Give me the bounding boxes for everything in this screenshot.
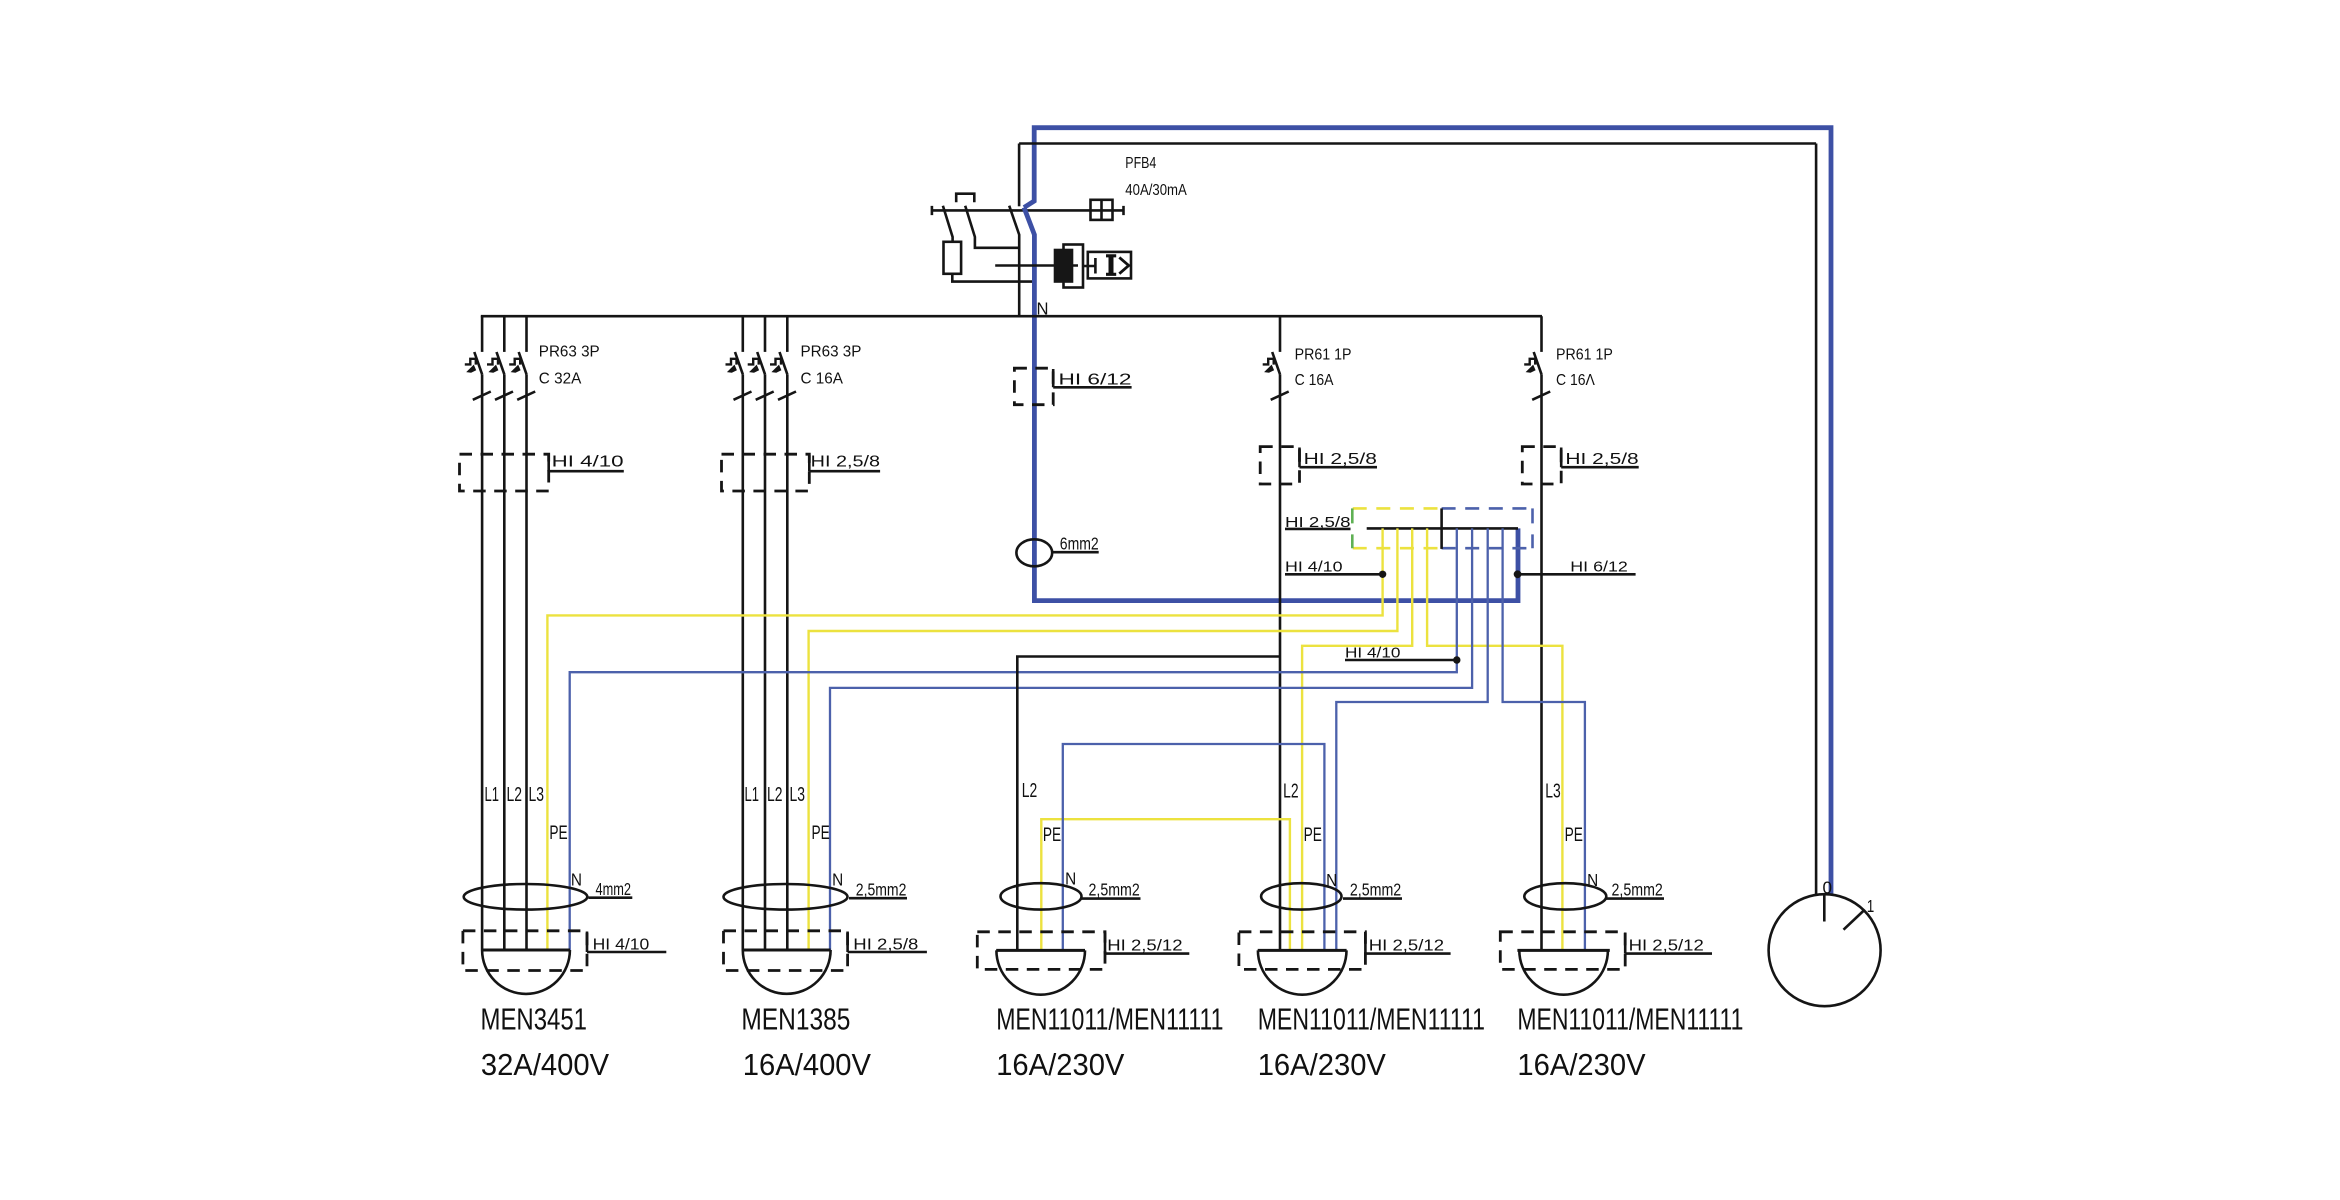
label HI 4/10 second leader to blue N wire [1345, 659, 1457, 662]
socket X1 dome [482, 950, 570, 994]
wire Q4 pole down to socket X5 [1540, 374, 1543, 950]
wire Q1 pole L1 down to socket X1 [481, 374, 484, 950]
socket X1 4mm2 label and underline [588, 896, 632, 899]
cable marker HI 6/12 tick and underline [1053, 369, 1131, 387]
wire N blue socket X5 drop from terminal block [1503, 528, 1585, 950]
junction dot on thick blue riser [1514, 570, 1522, 578]
svg-text:0: 0 [1823, 877, 1833, 897]
socket X2 2,5mm2 label and underline [849, 897, 907, 900]
cable marker HI 2,5/8 tick and underline [809, 455, 880, 471]
wire PE yellow group1: socket X1 up and to terminal block [547, 528, 1382, 950]
svg-text:6mm2: 6mm2 [1060, 533, 1099, 553]
breaker Q1 pole L3 [509, 316, 535, 400]
svg-text:C 16Λ: C 16Λ [1556, 372, 1595, 389]
socket X4 2,5mm2 label and underline [1343, 897, 1402, 900]
svg-text:PE: PE [1565, 824, 1583, 846]
wire Q2 pole L3 down to socket X2 [786, 374, 789, 950]
wire N blue group1: socket X1 up and to terminal block [570, 528, 1457, 950]
junction dot on blue N wire [1453, 656, 1460, 663]
svg-text:MEN11011/MEN11111: MEN11011/MEN11111 [1258, 1001, 1485, 1036]
cable marker dashed box HI 2,5/8 on Q3 [1260, 447, 1299, 484]
svg-text:HI 2,5/8: HI 2,5/8 [811, 454, 880, 471]
selector switch position 0 tick [1823, 894, 1826, 921]
svg-text:HI 4/10: HI 4/10 [1345, 645, 1401, 661]
svg-text:L1: L1 [485, 783, 500, 806]
wire phase distribution bus [481, 315, 1542, 318]
terminal block label HI 2,5/8 with underline [1285, 528, 1351, 531]
socket X3 cable ellipse [1001, 883, 1082, 909]
svg-text:PE: PE [812, 822, 830, 844]
socket X3 HI 2,5/12 tick underline label [1105, 933, 1189, 954]
cable marker dashed box HI 6/12 on neutral riser [1014, 368, 1053, 405]
cable marker dashed box HI 2,5/8 on Q4 [1522, 447, 1561, 484]
breaker Q1 PR63 3P C32A pole L1 [465, 316, 491, 400]
svg-text:MEN11011/MEN11111: MEN11011/MEN11111 [996, 1001, 1223, 1036]
svg-text:16A/230V: 16A/230V [1517, 1047, 1646, 1082]
svg-text:C 16A: C 16A [801, 370, 844, 387]
socket X2 dashed box [724, 931, 848, 971]
socket X3 2,5mm2 label and underline [1082, 897, 1141, 900]
wire blue top bus from RCD N pole to right riser [1024, 128, 1831, 895]
svg-text:PR61 1P: PR61 1P [1556, 346, 1613, 363]
svg-text:HI 2,5/12: HI 2,5/12 [1369, 937, 1444, 954]
svg-text:L3: L3 [529, 783, 545, 806]
svg-text:HI 2,5/8: HI 2,5/8 [1565, 451, 1638, 468]
RCD test button square [1091, 200, 1113, 220]
svg-text:N: N [832, 869, 843, 889]
wire PE yellow socket X5 drop from terminal block [1427, 528, 1562, 950]
svg-text:L2: L2 [1283, 780, 1299, 803]
socket X4 dome [1258, 950, 1347, 994]
cable marker HI 4/10 tick and underline [549, 455, 624, 471]
RCD pole 3 feed [1018, 144, 1021, 207]
wire Q1 pole L3 down to socket X1 [525, 374, 528, 950]
socket X1 cable ellipse [464, 884, 588, 910]
label HI 6/12 leader from thick blue riser [1517, 573, 1635, 576]
wire black right riser down to selector switch [1815, 144, 1818, 895]
svg-text:N: N [571, 869, 582, 889]
socket X3 plate [996, 949, 1085, 952]
wire PE yellow group2: socket X2 up and to terminal block [809, 528, 1398, 950]
terminal block N dashed box blue bottom edge [1442, 547, 1533, 550]
cable marker ellipse 6mm2 on neutral riser [1016, 539, 1052, 566]
socket X3 dashed box [977, 932, 1105, 970]
svg-text:HI 2,5/12: HI 2,5/12 [1629, 937, 1704, 954]
breaker Q2 pole L2 [748, 316, 774, 400]
wire Q1 pole L2 down to socket X1 [503, 374, 506, 950]
wire N blue link socket X4 to socket X3 [1063, 744, 1325, 950]
RCD trip relay I> box [1088, 252, 1131, 279]
svg-text:16A/400V: 16A/400V [743, 1047, 872, 1082]
svg-text:L2: L2 [1022, 779, 1037, 802]
terminal block N dashed box blue top edge [1442, 507, 1533, 510]
RCD neutral pole blue blade and riser down to neutral distribution [1024, 208, 1518, 601]
RCD supply terminal line [932, 206, 1124, 215]
wire black L2 branch from Q3 to socket X3 [1017, 657, 1280, 951]
RCD pole 3 blade and lower wire to N bus [1009, 206, 1019, 317]
svg-text:L3: L3 [1545, 780, 1561, 803]
svg-text:16A/230V: 16A/230V [1258, 1047, 1387, 1082]
cable marker HI 2,5/8 tick and underline on Q4 [1561, 448, 1639, 468]
wire Q2 pole L2 down to socket X2 [764, 374, 767, 950]
svg-text:L2: L2 [507, 783, 523, 806]
RCD CT core black rect [1054, 249, 1074, 283]
svg-text:PE: PE [549, 822, 567, 844]
socket X2 HI 2,5/8 tick underline label [848, 932, 927, 953]
socket X2 plate [743, 949, 831, 952]
wire Q3 pole down to socket X4 [1279, 374, 1282, 950]
socket X4 dashed box [1239, 932, 1366, 970]
wire Q2 pole L1 down to socket X2 [741, 374, 744, 950]
svg-text:2,5mm2: 2,5mm2 [1089, 880, 1140, 900]
svg-text:HI 2,5/8: HI 2,5/8 [853, 936, 918, 953]
svg-text:2,5mm2: 2,5mm2 [1612, 880, 1663, 900]
wire N blue socket X4 drop from terminal block [1336, 528, 1487, 950]
svg-text:HI 4/10: HI 4/10 [1285, 560, 1343, 576]
socket X5 dome [1519, 950, 1608, 994]
socket X1 HI 4/10 tick underline label [587, 932, 666, 953]
svg-text:2,5mm2: 2,5mm2 [856, 879, 907, 899]
svg-text:C 32A: C 32A [539, 370, 582, 387]
terminal block N dashed box blue right edge [1531, 508, 1534, 548]
socket X1 dashed box [463, 931, 587, 971]
breaker Q1 pole L2 [487, 316, 513, 400]
svg-text:L3: L3 [790, 783, 806, 806]
cable marker dashed box HI 2,5/8 on Q2 [722, 454, 810, 491]
socket X2 dome [743, 950, 831, 994]
terminal block PE dashed box yellow bottom edge [1353, 547, 1442, 550]
socket X5 HI 2,5/12 tick underline label [1625, 933, 1712, 954]
wire PE yellow socket X4 right drop from terminal block [1302, 528, 1412, 950]
breaker Q4 PR61 1P C16A pole [1524, 316, 1550, 400]
cable marker dashed box HI 4/10 on Q1 [460, 454, 549, 491]
svg-text:16A/230V: 16A/230V [996, 1047, 1125, 1082]
RCD pole 1 blade [943, 206, 953, 242]
junction dot on yellow PE wire [1379, 571, 1386, 578]
svg-text:HI 2,5/12: HI 2,5/12 [1107, 937, 1182, 954]
breaker Q2 PR63 3P C16A pole L1 [726, 316, 752, 400]
socket X3 dome [996, 950, 1085, 994]
svg-text:HI 6/12: HI 6/12 [1570, 560, 1628, 576]
terminal block PE dashed box green left edge [1351, 508, 1354, 548]
breaker Q3 PR61 1P C16A pole [1263, 316, 1289, 400]
RCD relay > glyph [1119, 257, 1128, 273]
svg-text:PR63 3P: PR63 3P [801, 344, 862, 361]
wire N blue group2: socket X2 up and to terminal block [830, 528, 1472, 950]
svg-text:PR63 3P: PR63 3P [539, 344, 600, 361]
svg-text:HI 2,5/8: HI 2,5/8 [1304, 451, 1377, 468]
RCD relay input tick [1083, 258, 1095, 274]
svg-text:2,5mm2: 2,5mm2 [1350, 880, 1401, 900]
svg-text:MEN3451: MEN3451 [481, 1001, 588, 1036]
svg-text:MEN11011/MEN11111: MEN11011/MEN11111 [1517, 1001, 1743, 1036]
terminal block PE dashed box yellow top edge [1353, 507, 1442, 510]
socket X4 plate [1258, 949, 1347, 952]
svg-text:PR61 1P: PR61 1P [1295, 346, 1352, 363]
selector switch position 1 tick [1844, 911, 1864, 930]
svg-text:L1: L1 [745, 783, 760, 806]
socket X5 plate [1517, 949, 1609, 952]
socket X4 cable ellipse [1261, 883, 1341, 909]
svg-text:4mm2: 4mm2 [596, 879, 632, 899]
RCD test linkage bracket [956, 194, 974, 203]
svg-text:PE: PE [1304, 824, 1322, 846]
RCD CT secondary outline box [1064, 245, 1084, 288]
svg-text:1: 1 [1867, 896, 1875, 916]
svg-text:MEN1385: MEN1385 [741, 1001, 850, 1036]
socket X1 plate [482, 949, 570, 952]
socket X5 2,5mm2 label and underline [1607, 897, 1665, 900]
wire PE yellow link socket X4 to socket X3 [1041, 819, 1290, 950]
RCD coil wire to N [952, 274, 1034, 282]
socket X2 cable ellipse [724, 884, 848, 910]
RCD trip coil [944, 242, 962, 274]
RCD current transformer wire [995, 264, 1078, 267]
svg-text:HI 6/12: HI 6/12 [1059, 371, 1132, 388]
svg-text:40A/30mA: 40A/30mA [1125, 182, 1187, 199]
breaker Q2 pole L3 [770, 316, 796, 400]
RCD relay I glyph [1109, 256, 1114, 274]
socket X5 dashed box [1500, 932, 1625, 970]
svg-text:C 16A: C 16A [1295, 372, 1334, 389]
socket X5 cable ellipse [1524, 883, 1606, 909]
svg-text:L2: L2 [767, 783, 783, 806]
svg-text:PE: PE [1043, 824, 1061, 846]
svg-text:HI 2,5/8: HI 2,5/8 [1285, 515, 1351, 531]
terminal block black feed wire [1367, 527, 1518, 530]
selector switch S1 circle [1769, 894, 1881, 1006]
cable marker HI 2,5/8 tick and underline on Q3 [1300, 448, 1378, 468]
RCD pole 2 blade [965, 206, 1019, 248]
terminal block black divider [1440, 508, 1443, 549]
svg-text:32A/400V: 32A/400V [481, 1047, 610, 1082]
socket X4 HI 2,5/12 tick underline label [1365, 933, 1450, 954]
svg-text:HI 4/10: HI 4/10 [593, 936, 650, 953]
svg-text:HI 4/10: HI 4/10 [552, 454, 624, 471]
svg-text:PFB4: PFB4 [1125, 155, 1156, 172]
cable marker 6mm2 underline [1052, 551, 1098, 554]
label HI 4/10 leader with junction dot on PE wire [1285, 573, 1383, 576]
wire black top from RCD L3 pole to right riser [1019, 142, 1816, 145]
